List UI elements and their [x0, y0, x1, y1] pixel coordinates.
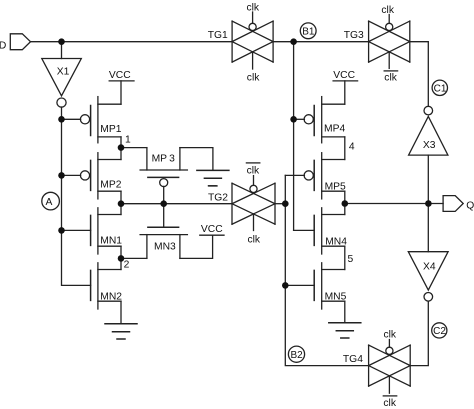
svg-text:clk: clk	[383, 398, 396, 409]
svg-text:clk: clk	[248, 235, 261, 246]
svg-text:clk: clk	[247, 73, 260, 84]
svg-text:MP1: MP1	[100, 124, 121, 135]
svg-text:A: A	[46, 197, 53, 208]
svg-text:MN1: MN1	[100, 236, 122, 247]
svg-text:clk: clk	[381, 5, 394, 16]
svg-text:D: D	[0, 41, 6, 52]
svg-text:TG3: TG3	[344, 30, 364, 41]
svg-text:B2: B2	[291, 350, 304, 361]
svg-text:2: 2	[124, 260, 130, 271]
svg-text:1: 1	[125, 134, 131, 145]
svg-text:MN2: MN2	[100, 292, 122, 303]
svg-text:4: 4	[349, 142, 355, 153]
svg-text:Q: Q	[466, 201, 474, 212]
svg-text:clk: clk	[384, 72, 397, 83]
svg-text:VCC: VCC	[333, 70, 355, 81]
svg-text:clk: clk	[247, 166, 260, 177]
svg-text:TG1: TG1	[208, 30, 228, 41]
svg-text:X4: X4	[423, 261, 436, 272]
svg-text:MN5: MN5	[325, 292, 347, 303]
svg-text:MP 3: MP 3	[152, 154, 176, 165]
svg-text:X1: X1	[57, 67, 70, 78]
svg-text:MN4: MN4	[325, 237, 347, 248]
svg-text:X3: X3	[423, 140, 436, 151]
svg-text:clk: clk	[247, 3, 260, 14]
svg-text:B1: B1	[302, 27, 315, 38]
svg-text:VCC: VCC	[201, 224, 223, 235]
svg-text:C1: C1	[434, 84, 447, 95]
svg-text:MP5: MP5	[325, 181, 346, 192]
svg-text:TG4: TG4	[343, 354, 363, 365]
svg-text:VCC: VCC	[109, 70, 131, 81]
svg-text:MP4: MP4	[324, 124, 345, 135]
svg-text:5: 5	[348, 254, 354, 265]
svg-text:TG2: TG2	[208, 193, 228, 204]
svg-text:MN3: MN3	[154, 241, 176, 252]
svg-text:clk: clk	[384, 330, 397, 341]
svg-text:MP2: MP2	[100, 180, 121, 191]
svg-text:C2: C2	[433, 326, 446, 337]
